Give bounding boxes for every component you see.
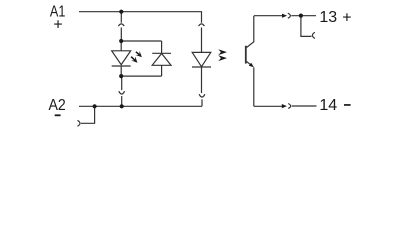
svg-text:+: +: [342, 9, 351, 26]
svg-text:+: +: [53, 17, 62, 34]
svg-text:A2: A2: [49, 97, 66, 114]
svg-text:14: 14: [319, 97, 337, 114]
svg-text:13: 13: [319, 9, 337, 26]
